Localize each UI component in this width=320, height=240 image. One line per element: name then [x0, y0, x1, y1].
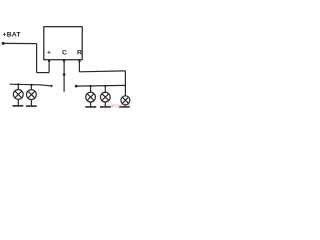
ground lamp R3 — [119, 105, 129, 107]
svg-text:C: C — [62, 49, 67, 56]
junction dot left lamp 2 — [30, 84, 32, 86]
pin R terminal — [78, 60, 80, 62]
junction dot right lamp 1 — [89, 85, 91, 87]
wire stub lamp R2 — [104, 86, 106, 92]
lamp L1 — [13, 90, 23, 100]
wire to + pin — [37, 72, 50, 74]
junction dot right lamp 2 — [104, 85, 106, 87]
wire stub lamp R1 — [90, 86, 92, 92]
svg-text:+: + — [47, 49, 51, 56]
svg-text:R: R — [77, 49, 82, 56]
wire right bus — [76, 84, 125, 87]
junction dot left lamp 1 — [17, 83, 19, 85]
lamp R2 — [100, 92, 110, 102]
terminal dot +BAT — [2, 42, 5, 45]
ground lamp R1 — [85, 102, 96, 107]
wire stub lamp L1 — [17, 85, 19, 90]
wire R horizontal — [79, 70, 125, 73]
wire R vertical down to lamp — [124, 71, 126, 96]
flasher unit box U1 — [44, 27, 82, 60]
lamp L2 — [27, 90, 37, 100]
ground lamp L2 — [26, 100, 37, 107]
ground lamp R2 — [100, 102, 111, 107]
lamp R3 — [121, 96, 130, 105]
terminal dot left bus — [50, 85, 52, 87]
wire left bus — [10, 84, 50, 86]
wire from +BAT horizontal — [3, 42, 36, 44]
ground lamp L1 — [13, 99, 24, 106]
svg-text:+BAT: +BAT — [3, 31, 22, 38]
svg-text:Topgla: Topgla — [102, 103, 131, 109]
pin + terminal — [48, 60, 50, 62]
wire stub lamp L2 — [30, 85, 32, 90]
lamp R1 — [86, 92, 96, 102]
terminal dot right bus — [75, 85, 78, 88]
connector dot on C wire — [63, 73, 66, 76]
pin C terminal — [63, 60, 65, 62]
wire from +BAT vertical — [36, 44, 38, 73]
